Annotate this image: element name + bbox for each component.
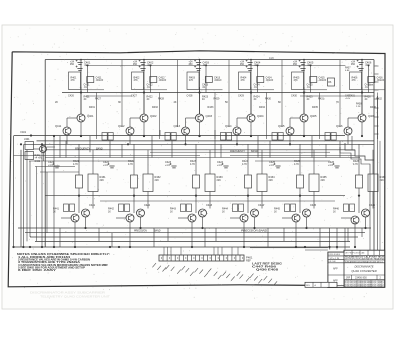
connector J401 input boxes [25, 142, 34, 150]
wire left stair y166 [35, 166, 75, 168]
transistor Q426 [351, 216, 359, 224]
svg-text:.001UF: .001UF [266, 80, 274, 82]
stage bottom 4 connect wires [247, 188, 249, 213]
wire right step 2 [340, 147, 370, 250]
transistor Q425 [292, 214, 300, 222]
wire left drop x37 [36, 167, 38, 242]
svg-text:PRECISION: PRECISION [134, 231, 147, 233]
svg-text:.001UF: .001UF [214, 80, 222, 82]
svg-text:R403: R403 [189, 77, 195, 80]
connector pin dots [161, 257, 162, 258]
title block right row lines [344, 254, 385, 256]
resistor R404 box [239, 72, 251, 90]
stage top 2 collector column [121, 60, 123, 127]
stage top 3 feed wire [199, 60, 201, 114]
svg-text:4C: 4C [307, 99, 310, 101]
stage bottom 5 connect wires [299, 188, 301, 213]
transistor Q422 [126, 214, 134, 222]
stage top 6 emitter resistor column [377, 93, 379, 140]
stage top 6 base wire [348, 117, 358, 119]
svg-text:C426: C426 [68, 95, 74, 98]
svg-text:C402: C402 [35, 161, 41, 163]
transistor Q421 [71, 214, 79, 222]
svg-text:2K: 2K [55, 101, 58, 104]
wire left drop x13 [13, 136, 15, 248]
svg-text:47K: 47K [241, 80, 246, 82]
svg-text:1 ALL DIODES ARE FD1184: 1 ALL DIODES ARE FD1184 [18, 256, 71, 259]
resistor R424 box [245, 175, 252, 188]
stage bottom 3 connect wires [195, 188, 197, 213]
stage top 5 collector column [281, 60, 283, 127]
wire mid bus y136 [14, 135, 345, 137]
svg-text:4C: 4C [254, 99, 257, 101]
transistor Q413 emitter wire [185, 135, 187, 144]
svg-text:J401: J401 [24, 137, 30, 141]
stage bottom 2 connect wires [133, 188, 135, 213]
svg-text:R435: R435 [312, 106, 318, 109]
svg-text:6.8K: 6.8K [345, 70, 350, 72]
svg-text:C415: C415 [319, 76, 326, 80]
wire mid bus y150 [47, 149, 356, 151]
wire mid bus y155 [14, 155, 201, 157]
svg-text:R443: R443 [170, 208, 176, 211]
transistor Q413 [182, 127, 190, 135]
stage bottom 6 feed wires [358, 144, 360, 175]
svg-text:C414: C414 [266, 76, 273, 80]
stage top 2 collector wire [143, 87, 145, 114]
svg-text:2 RESISTANCE VALUES ARE IN OH: 2 RESISTANCE VALUES ARE IN OHMS 1/4 W CA… [18, 258, 90, 261]
svg-text:R434: R434 [259, 106, 265, 109]
svg-text:47K: 47K [189, 80, 194, 82]
svg-text:4.7K: 4.7K [190, 163, 195, 166]
svg-text:C446: C446 [369, 203, 376, 207]
capacitor C411 box [87, 77, 94, 83]
transistor Q401 [77, 114, 85, 122]
capacitor C416 [357, 66, 364, 71]
svg-text:NOTES UNLESS OTHERWISE SPECIFI: NOTES UNLESS OTHERWISE SPECIFIED DIRECTL… [17, 254, 110, 256]
resistor R436 box [368, 174, 378, 192]
svg-text:C441: C441 [89, 203, 96, 207]
capacitor C414 [246, 66, 253, 71]
capacitor C415 box [310, 77, 317, 83]
stage top 4 base wire [237, 117, 247, 119]
stage top 4 feed wire [250, 60, 252, 114]
svg-text:C442: C442 [144, 203, 151, 207]
stage top 4 collector wire [250, 87, 252, 114]
svg-text:C413: C413 [214, 76, 221, 80]
svg-text:1K: 1K [222, 211, 225, 213]
wire bottom bus y228 [18, 227, 371, 229]
capacitor C401 [76, 60, 83, 65]
resistor R422 box [131, 175, 138, 188]
mid band resistor box pairs [102, 133, 107, 141]
svg-text:4C: 4C [84, 99, 87, 101]
svg-text:R433: R433 [208, 106, 214, 109]
svg-text:R426: R426 [365, 95, 372, 99]
stage top 2 junction dots [143, 91, 145, 93]
transistor Q412 [126, 127, 134, 135]
capacitor C403 [194, 60, 201, 65]
stage bottom 2 dots [133, 195, 135, 197]
wire bottom bus y233 [25, 232, 365, 234]
stage bottom 3 base resistor boxes [181, 204, 186, 212]
stage top 1 emitter resistor column [96, 93, 98, 140]
resistor R405 box [292, 72, 304, 90]
capacitor C421 symbol [53, 163, 60, 168]
svg-text:R424: R424 [254, 95, 261, 99]
wire left drop x21 [20, 150, 22, 247]
capacitor C423 symbol [170, 163, 177, 168]
capacitor C425 symbol [274, 163, 281, 168]
wire right drop x380 [379, 141, 381, 252]
wire left drop x23 [22, 144, 24, 247]
svg-text:1/20: 1/20 [269, 57, 274, 60]
stage bottom 1 feed wires [78, 144, 80, 175]
transistor Q415 [286, 127, 294, 135]
transistor Q415 emitter wire [289, 135, 291, 144]
resistor R436 box [328, 78, 335, 86]
wire mid bus y152 segment [150, 151, 330, 153]
svg-text:47K: 47K [71, 80, 76, 82]
transistor Q404 emitter wire [250, 122, 252, 136]
stage top 1 feed wire [80, 60, 82, 114]
svg-text:22K: 22K [217, 179, 222, 182]
stage bottom 6 connect wires [358, 188, 360, 213]
capacitor C411 [76, 66, 83, 71]
transistor Q400 [40, 146, 47, 153]
svg-text:R431: R431 [89, 106, 95, 109]
stage top 3 base wire [186, 117, 196, 119]
wire left stair y161 [29, 160, 133, 162]
capacitor C412 box [150, 77, 157, 83]
svg-text:Q403: Q403 [206, 114, 213, 118]
capacitor C406 [357, 60, 364, 65]
stage top 5 feed wire [303, 60, 305, 114]
svg-text:SUBCARRIER DISCRIMINATOR UNIT: SUBCARRIER DISCRIMINATOR UNIT MOD 2 [345, 260, 383, 263]
transistor Q406 emitter wire [361, 122, 363, 136]
svg-text:QUAD CONVERTER: QUAD CONVERTER [351, 269, 376, 273]
resistor R432 box [143, 174, 153, 192]
revision strip [305, 282, 337, 287]
svg-text:R421: R421 [84, 95, 91, 99]
wire left drop x54 [53, 136, 55, 247]
svg-text:TELEMETRY QUAD CONVERTER UNIT: TELEMETRY QUAD CONVERTER UNIT [40, 295, 111, 299]
svg-text:Q436 E408: Q436 E408 [256, 269, 279, 272]
stage bottom 3 feed wires [195, 144, 197, 175]
capacitor C414 box [257, 77, 264, 83]
svg-text:Q404: Q404 [257, 114, 264, 118]
svg-text:4C: 4C [365, 99, 368, 101]
svg-text:R422: R422 [147, 95, 154, 99]
svg-text:R430: R430 [265, 98, 271, 101]
stage bottom 4 base resistor boxes [233, 204, 238, 212]
svg-text:R438: R438 [356, 104, 362, 106]
stage bottom 5 feed wires [299, 144, 301, 175]
input cluster drop wire [43, 153, 45, 162]
resistor R433 box [205, 174, 215, 192]
svg-text:.001UF: .001UF [159, 80, 167, 82]
wire mid link bus y96 [86, 95, 132, 97]
svg-text:DISCRIMINATE: DISCRIMINATE [354, 265, 373, 269]
svg-text:C412: C412 [159, 76, 166, 80]
svg-text:Q412: Q412 [118, 124, 125, 128]
stage top 2 emitter resistor column [159, 93, 161, 140]
stage top 1 junction dots [80, 91, 82, 93]
svg-text:JET PROPULSION LABORATORY PASA: JET PROPULSION LABORATORY PASADENA [345, 258, 385, 261]
svg-text:.001UF: .001UF [319, 80, 327, 82]
capacitor C416 box [368, 77, 375, 83]
svg-text:R423: R423 [202, 95, 209, 99]
connector feed wires [163, 247, 165, 255]
svg-text:.001UF: .001UF [377, 80, 385, 82]
title block outline [328, 250, 385, 287]
connector P401 strip [159, 255, 244, 261]
stage bottom 5 dots [299, 195, 301, 197]
svg-text:R437: R437 [345, 68, 351, 70]
resistor R431 box [88, 174, 98, 192]
capacitor C413 box [205, 77, 212, 83]
transistor Q422 emitter wires [129, 222, 131, 247]
svg-text:R425: R425 [307, 95, 314, 99]
transistor Q405 [300, 114, 308, 122]
capacitor C404 [246, 60, 253, 65]
svg-text:C425: C425 [307, 83, 314, 87]
transistor Q421 emitter wires [74, 222, 76, 247]
svg-text:1/2 = 1 IN: 1/2 = 1 IN [330, 258, 340, 260]
stage bottom 1 base resistor boxes [64, 204, 69, 212]
svg-text:DISCRIMINATOR ASSY SUBCARRIER: DISCRIMINATOR ASSY SUBCARRIER [30, 291, 105, 295]
svg-text:R432: R432 [152, 106, 158, 109]
svg-text:Q401: Q401 [87, 114, 94, 118]
resistor R402 box [132, 72, 144, 90]
svg-text:Q402: Q402 [150, 114, 157, 118]
svg-text:C428: C428 [187, 95, 193, 98]
svg-text:5 SEE DWG 850 FOR ADJUSTMENT: 5 SEE DWG 850 FOR ADJUSTMENT AND SETUP [18, 267, 86, 270]
transistor Q401 emitter wire [80, 122, 82, 136]
transistor Q416 emitter wire [347, 135, 349, 144]
svg-text:Q411: Q411 [55, 124, 62, 128]
input cluster wires [34, 148, 40, 150]
svg-text:22K: 22K [269, 179, 274, 182]
svg-text:C422: C422 [147, 83, 154, 87]
svg-text:.001UF: .001UF [96, 80, 104, 82]
resistor R423 box [193, 175, 200, 188]
transistor Q402 emitter wire [143, 122, 145, 136]
stage bottom 1 connect wires [78, 188, 80, 213]
svg-text:BAND: BAND [154, 230, 161, 233]
wire left drop x42 [41, 144, 43, 247]
stage top 3 collector wire [199, 87, 201, 114]
stage top 1 base wire [67, 117, 77, 119]
stage bottom 2 feed wires [133, 144, 135, 175]
resistor R406 box [350, 72, 362, 90]
svg-text:1K: 1K [53, 211, 56, 213]
svg-text:F401: F401 [21, 131, 27, 134]
bus junction dots [12, 246, 14, 248]
resistor R435 box [309, 174, 319, 192]
wire mid bus y144 [24, 143, 374, 145]
wire drop to title x337 [336, 228, 338, 250]
capacitor C422 symbol [108, 163, 115, 168]
wire lower stage top bus y157 [45, 157, 360, 159]
wire left drop x27 [26, 150, 28, 242]
svg-text:APP: APP [333, 268, 338, 271]
transistor Q403 [196, 114, 204, 122]
svg-text:R405: R405 [294, 77, 300, 80]
svg-text:C421: C421 [84, 83, 91, 87]
svg-text:47K: 47K [134, 80, 139, 82]
stage bottom 6 dots [358, 195, 360, 197]
scan speckle [10, 28, 388, 300]
stage bottom 4 dots [247, 195, 249, 197]
svg-text:47K: 47K [352, 80, 357, 82]
svg-text:Q405: Q405 [310, 114, 317, 118]
stage bottom 3 dots [195, 195, 197, 197]
wire left drop x30 [29, 161, 31, 237]
svg-text:C444: C444 [258, 203, 265, 207]
svg-text:C430: C430 [291, 95, 297, 98]
svg-text:LAST REF DESIG: LAST REF DESIG [252, 263, 282, 266]
transistor Q405 emitter wire [303, 122, 305, 136]
svg-text:Q416: Q416 [336, 124, 343, 128]
svg-text:R429: R429 [214, 98, 220, 101]
transistor Q411 emitter wire [66, 135, 68, 144]
transistor Q404 [247, 114, 255, 122]
svg-text:R444: R444 [222, 208, 228, 211]
wire drop to title x329 [329, 228, 331, 250]
svg-text:JET PROPULSION LAB: JET PROPULSION LAB [345, 252, 365, 255]
stage top 5 collector wire [303, 87, 305, 114]
resistor R421 box [76, 175, 83, 188]
sheet border [8, 51, 385, 287]
svg-text:3K: 3K [118, 101, 121, 104]
transistor Q435 [303, 209, 311, 217]
stage top 1 link y90 [81, 89, 104, 91]
resistor R401 box [69, 72, 81, 90]
svg-text:Q415: Q415 [278, 124, 285, 128]
stage top 4 junction dots [250, 91, 252, 93]
wire bottom band crossings [59, 228, 61, 247]
svg-text:C424: C424 [254, 83, 261, 87]
stage top 5 junction dots [303, 91, 305, 93]
svg-text:4.7K: 4.7K [73, 163, 78, 166]
wire bottom bus y247 [14, 246, 351, 248]
svg-text:+4 +8V: +4 +8V [35, 158, 43, 160]
wire right step 1 [345, 143, 374, 160]
svg-text:1K: 1K [170, 211, 173, 213]
transistor Q436 [362, 209, 370, 217]
svg-text:Q413: Q413 [174, 124, 181, 128]
svg-text:22K: 22K [155, 179, 160, 182]
svg-text:C437: C437 [345, 96, 351, 98]
svg-text:C445: C445 [310, 203, 317, 207]
stage top 4 emitter resistor column [266, 93, 268, 140]
transistor Q433 [199, 209, 207, 217]
svg-text:R441: R441 [53, 208, 59, 211]
stage top 5 base wire [290, 117, 300, 119]
wire drop to title x345 [344, 228, 346, 250]
stage bottom 1 dots [78, 195, 80, 197]
stage top 4 link y90 [251, 89, 274, 91]
svg-text:Q406: Q406 [368, 114, 375, 118]
svg-text:R427: R427 [95, 98, 101, 101]
capacitor C412 [139, 66, 146, 71]
transistor Q424 emitter wires [243, 222, 245, 247]
stage bottom 6 base resistor boxes [344, 204, 349, 212]
transistor Q402 [140, 114, 148, 122]
capacitor C424 symbol [222, 163, 229, 168]
svg-text:4K: 4K [174, 101, 177, 104]
svg-text:ORIG SCALE: ORIG SCALE [329, 253, 341, 256]
stage top 2 link y90 [144, 89, 167, 91]
resistor R426 box [356, 175, 363, 188]
resistor R425 box [297, 175, 304, 188]
capacitor C413 [194, 66, 201, 71]
svg-text:C438: C438 [368, 85, 374, 87]
title block top cells [351, 250, 353, 255]
stage top 3 collector column [177, 60, 179, 127]
wire right drop x377 [377, 96, 379, 252]
svg-text:5K: 5K [225, 101, 228, 104]
transistor Q412 emitter wire [129, 135, 131, 144]
svg-text:4C: 4C [202, 99, 205, 101]
transistor Q414 [233, 127, 241, 135]
wire bottom bus y241 [35, 240, 350, 242]
svg-text:R402: R402 [35, 154, 41, 157]
svg-text:REF: REF [246, 260, 251, 263]
transistor Q426 emitter wires [354, 222, 356, 247]
transistor Q431 [82, 209, 90, 217]
capacitor C426 symbol [333, 163, 340, 168]
stage top 3 junction dots [198, 91, 200, 93]
wire mid bus y141 [37, 140, 375, 142]
wire top secondary bus [86, 65, 345, 67]
transistor Q423 emitter wires [191, 222, 193, 247]
title block size row [351, 275, 353, 280]
transistor Q423 [188, 214, 196, 222]
svg-text:BAND: BAND [96, 148, 103, 151]
stage top 6 junction dots [361, 91, 363, 93]
svg-text:4.7K: 4.7K [242, 163, 247, 166]
stage top 2 feed wire [143, 60, 145, 114]
stage top 2 base wire [130, 117, 140, 119]
transistor Q403 emitter wire [199, 122, 201, 136]
transistor Q406 [358, 114, 366, 122]
wire inner frame right [373, 60, 375, 250]
svg-text:4.7K: 4.7K [128, 163, 133, 166]
wire left stair y172 [40, 171, 79, 173]
stage bottom 5 base resistor boxes [285, 204, 290, 212]
svg-text:FREQUENCY: FREQUENCY [230, 150, 245, 153]
wire mid band crossings [59, 136, 61, 158]
svg-text:22K: 22K [321, 179, 326, 182]
wire mid link bus y92 [62, 92, 374, 94]
svg-text:R404: R404 [241, 77, 247, 80]
stage top 5 emitter resistor column [319, 93, 321, 140]
svg-text:22K: 22K [380, 179, 385, 182]
resistor R403 box [187, 72, 199, 90]
svg-text:C447 R456: C447 R456 [252, 266, 277, 269]
svg-text:+10V: +10V [345, 98, 351, 100]
svg-text:R431: R431 [318, 98, 324, 101]
stage bottom 2 base resistor boxes [119, 204, 124, 212]
capacitor C402 [139, 60, 146, 65]
wire title feed y250 [305, 249, 328, 251]
stage top 6 feed wire [361, 60, 363, 114]
wire lower link y201 [100, 200, 335, 202]
right column tick marks [375, 65, 379, 67]
svg-text:C443: C443 [206, 203, 213, 207]
